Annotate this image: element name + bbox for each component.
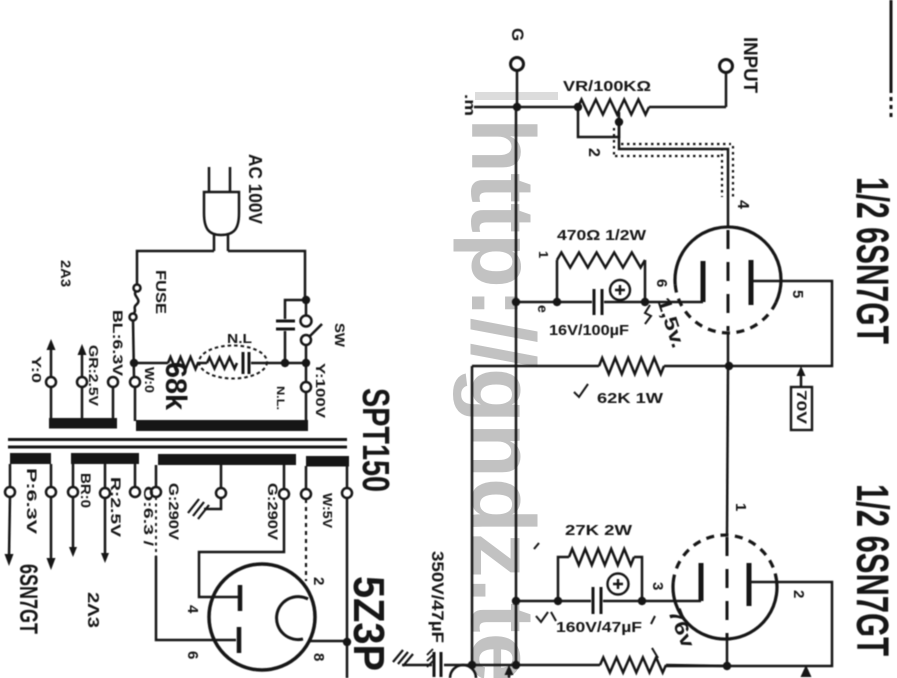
chassis ground hatch [393,650,413,666]
arrowhead BR lead [69,547,77,557]
triode U1 envelope dashed [675,285,776,333]
V3 cathode arc [277,597,308,640]
svg-text:5: 5 [789,290,806,298]
svg-text:2A3: 2A3 [58,260,73,288]
secondary bar G [158,454,296,465]
svg-text:BR:0: BR:0 [78,473,94,508]
neon lamp N.L outline [199,346,267,379]
U1 cathode wire [516,301,703,304]
wire lamp-node [251,362,306,365]
primary bar right [136,420,308,431]
switch SW [301,316,312,327]
secondary bar W5 [306,456,349,467]
wire W5V dashed to pin2 [305,499,307,581]
hw tick 27K [534,543,539,549]
svg-text:Y:100V: Y:100V [313,363,328,418]
hw squiggle 15v [645,305,651,324]
svg-text:1,5v.: 1,5v. [652,295,688,351]
terminal G [511,58,524,71]
resistor R4 27K [569,549,634,565]
capacitor across switch [276,321,295,329]
neon lamp resistor [207,358,237,369]
svg-text:SW: SW [332,323,348,348]
svg-text:G:290V: G:290V [265,483,280,540]
rectifier V3 5Z3P envelope [209,564,315,670]
svg-text:INPUT: INPUT [739,37,760,93]
svg-text:1: 1 [536,251,551,258]
R4 stubs [558,557,642,601]
triode U2 envelope solid [673,574,777,640]
wire O63 to 5Z3P pin6 [155,497,157,556]
U2 grid lower stub [726,639,729,666]
svg-text:e: e [535,305,551,313]
wire node-68k [134,362,168,365]
svg-text:62K 1W: 62K 1W [597,390,664,407]
wire bus-R3 [472,365,599,368]
svg-text:P:6.3V: P:6.3V [24,468,39,534]
U1 plate loop [664,281,832,366]
triode U2 envelope dashed [673,535,775,582]
wire AC left [137,251,214,284]
capacitor C1 16V/100uF [594,289,602,315]
potentiometer VR 100K [578,100,649,115]
svg-text:27K 2W: 27K 2W [565,522,633,539]
tube V4 arc bottom edge [450,665,476,678]
wire pin8 [309,640,347,643]
svg-text:R:2.5V: R:2.5V [108,477,123,537]
shield dotted [614,128,733,197]
U1 grid dashed [727,230,730,331]
B bus vertical [471,366,474,665]
svg-text:1/2 6SN7GT: 1/2 6SN7GT [847,484,897,656]
U2 grid wire [727,366,728,535]
resistor R2 470 [557,253,645,268]
U1 grid lower stub [727,333,730,366]
svg-text:http://gndz.te: http://gndz.te [452,118,552,678]
pot wiper [618,112,621,122]
arrowhead 70V [797,366,806,376]
svg-text:O:6.3 /: O:6.3 / [141,486,156,547]
AC plug body [204,192,239,235]
svg-text:2: 2 [585,148,602,157]
resistor R3 62K [599,358,664,374]
arrowhead bottom2 [801,665,812,677]
arrowhead P lead2 [47,558,56,570]
AC plug prongs [209,167,230,193]
hw check 160V [536,612,556,622]
arrowhead Y:0 [47,339,56,350]
capacitor C2 160V/47uF [593,587,601,614]
arrowhead GR:2.5V [78,344,87,355]
label box 70V [791,387,812,430]
svg-text:68k: 68k [159,362,192,410]
terminal Y:100V [301,382,311,392]
svg-text:2: 2 [790,590,807,598]
scan smudge [475,92,558,100]
hw dash 76v [651,616,658,658]
junction dots [513,103,521,111]
wire G290 to 5Z3P pin4 [199,498,284,597]
svg-text:16V/100µF: 16V/100µF [549,322,629,339]
svg-text:76v: 76v [663,606,698,651]
resistor 68k [168,357,207,369]
R2 stubs [557,260,645,302]
edge border mark [890,0,893,93]
svg-text:70V: 70V [794,390,810,425]
arrowhead bottom1 [505,665,514,675]
fuse F1 [134,285,141,292]
svg-text:N.L: N.L [227,331,252,346]
svg-text:W:5V: W:5V [320,493,335,528]
svg-text:N.L.: N.L. [274,386,286,410]
svg-text:5Z3P: 5Z3P [344,576,393,671]
capacitor C3 350V/47uF [434,652,441,677]
V3 filament bar pin6 [237,627,242,653]
wire fuse to tap [133,320,134,377]
arrowhead R lead [101,553,109,563]
svg-text:6SN7GT: 6SN7GT [14,564,42,634]
svg-text:SPT150: SPT150 [354,388,396,492]
svg-text:G: G [508,28,527,41]
wire cap branch [285,300,306,363]
svg-text:BL:6.3V: BL:6.3V [110,310,126,377]
svg-text:6: 6 [653,279,670,287]
svg-text:2Λ3: 2Λ3 [84,592,101,628]
neon lamp capacitor [243,352,249,374]
core line2 [8,446,347,449]
svg-text:Y:0: Y:0 [29,356,44,383]
svg-text:4: 4 [184,605,201,614]
terminal INPUT [720,60,733,73]
wire pot-INPUT [649,106,726,109]
wire AC right [228,251,305,300]
heater leads up [51,346,82,377]
V3 filament bar pin4 [238,585,243,611]
svg-text:VR/100KΩ: VR/100KΩ [563,78,651,95]
U2 plate bar [747,563,752,606]
svg-text:AC 100V: AC 100V [245,154,265,224]
arrow line bottom1 [508,672,511,678]
svg-text:1: 1 [732,503,749,511]
svg-text:4: 4 [734,200,751,209]
pot loop wire [578,107,619,137]
ground HV center tap [204,497,221,509]
resistor R5 bottom [600,658,666,673]
svg-text:470Ω 1/2W: 470Ω 1/2W [557,227,647,244]
U2 plate loop [666,582,832,666]
secondary stems [10,464,347,490]
bottom ground wire [402,664,600,667]
U1 cathode bar [701,261,706,302]
U2 grid dashed [726,537,729,638]
svg-text:3: 3 [649,582,666,590]
U2 cathode bar [699,563,704,601]
secondary bar P [10,453,51,464]
svg-text:GR:2.5V: GR:2.5V [86,345,101,406]
wire top run [474,106,578,109]
primary bar left [49,418,117,429]
svg-text:G:290V: G:290V [166,483,181,540]
AC cord [214,235,228,251]
svg-text:6: 6 [184,651,201,659]
svg-text:1/2 6SN7GT: 1/2 6SN7GT [847,177,897,344]
svg-text:FUSE: FUSE [152,270,169,314]
core line1 [8,438,347,441]
wire switch to tap [305,345,308,382]
svg-text:350V/47µF: 350V/47µF [428,551,447,643]
svg-text:160V/47µF: 160V/47µF [556,619,642,636]
svg-text:2: 2 [310,577,327,585]
svg-text:.m: .m [461,94,478,116]
wire W5V right lead [346,497,349,678]
arrowhead P lead1 [5,554,14,566]
C1 plus [610,280,630,300]
wire R5 to plate loop [666,665,727,666]
primary taps [46,377,56,387]
wire to switch [305,300,308,315]
ground bus vertical [515,107,518,665]
svg-text:W:0: W:0 [142,367,157,393]
secondary bar BR [71,453,139,464]
U1 plate bar [749,260,754,305]
heater leads down [9,497,105,561]
U2 cathode wire [516,600,701,603]
hw check 62K [574,384,588,397]
C2 plus [608,574,629,595]
signal wire to U1 grid [619,122,728,227]
secondary terminals [5,487,15,497]
svg-text:8: 8 [310,653,327,661]
triode U1 envelope solid [675,227,781,302]
